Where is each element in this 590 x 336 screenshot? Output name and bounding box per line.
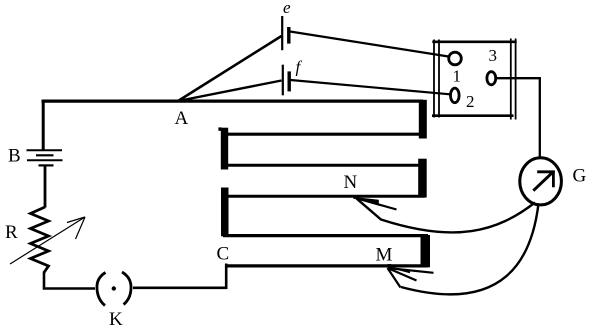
wire battery B to rheostat R [44,165,47,207]
potentiometer wire row 5 [223,234,428,237]
end bar right 2 [418,159,427,198]
potentiometer wire row 6 [226,264,429,267]
potentiometer wire row 4 [223,195,425,198]
svg-text:M: M [376,245,393,266]
svg-text:K: K [109,309,123,330]
svg-text:G: G [573,166,587,187]
svg-text:R: R [5,222,18,243]
wire A to cell e (diagonal) [178,36,282,101]
wire key K to node C [133,264,226,288]
wire galvanometer to N (jockey lead) [356,198,535,232]
svg-text:C: C [217,244,230,265]
potentiometer wire row 3 [223,164,426,167]
svg-text:3: 3 [489,46,498,65]
wire terminal 3 to galvanometer [496,78,540,158]
wire cell f to terminal 2 [291,80,451,94]
end bar left 1 [221,128,228,170]
cell e [282,16,289,50]
arrowhead at N [356,197,396,209]
svg-text:A: A [175,108,189,129]
node M contact nub [388,264,391,271]
end bar left 2 [221,188,229,237]
node N contact nub [353,196,356,199]
arrowhead at M [388,268,434,288]
battery B [27,150,63,165]
wire galvanometer to M (jockey lead) [401,204,539,295]
rheostat arrow [10,217,85,264]
terminal 1 [449,52,462,65]
svg-text:1: 1 [453,67,462,86]
end bar right 3 [421,235,431,267]
terminal 2 [451,88,460,103]
wire cell e to terminal 1 [290,32,449,57]
wire top-left horizontal (A row feed) [42,99,424,102]
wire A to cell f (diagonal) [178,81,282,102]
wire left vertical to battery B [42,100,45,150]
svg-text:2: 2 [466,92,475,111]
switch box [432,39,517,120]
potentiometer wire row 2 [223,133,425,136]
svg-text:B: B [8,146,21,167]
svg-text:N: N [344,172,358,193]
end bar right 1 [419,100,427,139]
wire stub at end bar left 1 [218,127,221,130]
key K [97,272,131,306]
galvanometer G [520,158,562,205]
wire rheostat to key K [44,272,95,289]
cell f [283,65,289,96]
svg-text:e: e [283,0,291,17]
resistor R (rheostat zigzag) [31,207,49,273]
terminal 3 [487,72,496,85]
